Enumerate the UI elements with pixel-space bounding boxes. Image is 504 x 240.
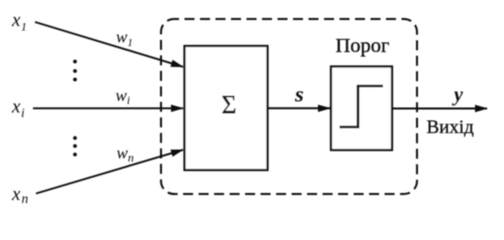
input arrow x1: [35, 22, 183, 67]
summation block box: [185, 46, 268, 170]
svg-text:Σ: Σ: [222, 91, 237, 120]
input arrow xi: [33, 107, 183, 109]
svg-text:Порог: Порог: [336, 35, 390, 57]
svg-text:s: s: [294, 82, 304, 107]
output arrow y: [392, 108, 487, 110]
ellipsis dots upper: [73, 60, 77, 82]
ellipsis dots lower: [73, 136, 77, 156]
svg-text:Вихід: Вихід: [427, 117, 475, 138]
input arrow xn: [36, 150, 183, 194]
dashed boundary box (neuron): [161, 19, 417, 194]
threshold block box: [331, 67, 392, 151]
step function symbol: [340, 86, 384, 127]
svg-text:y: y: [452, 84, 463, 106]
wire s: summation to threshold: [267, 107, 330, 109]
